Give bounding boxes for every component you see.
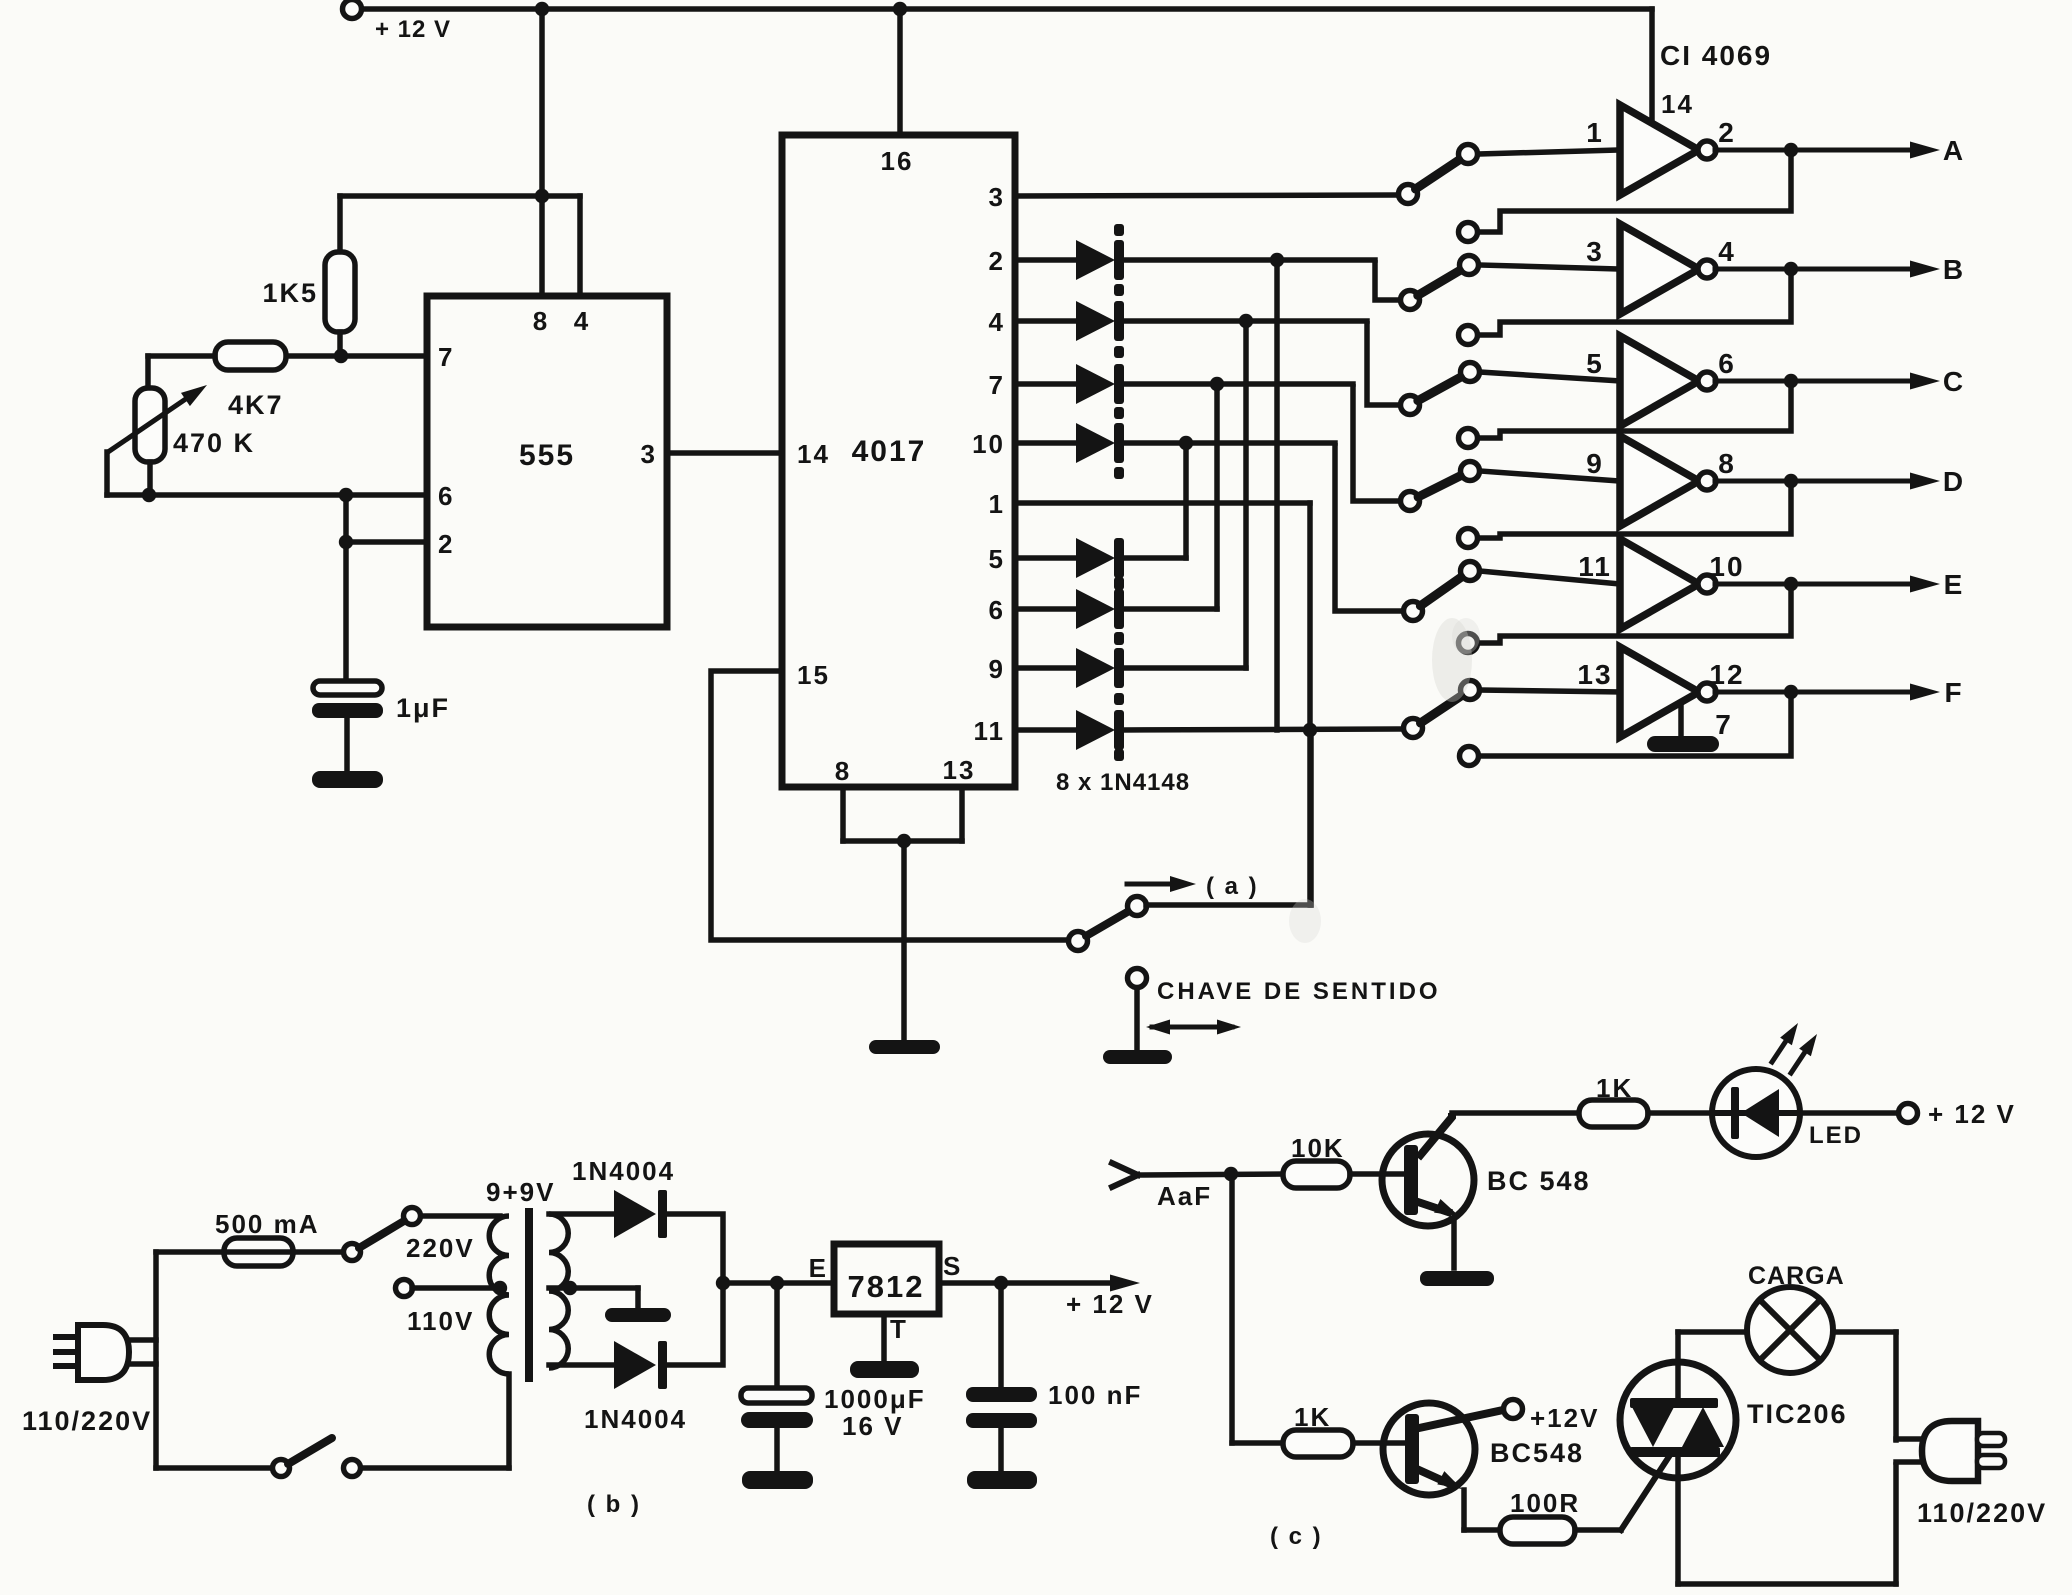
svg-text:8: 8 xyxy=(1718,448,1736,479)
svg-text:100R: 100R xyxy=(1510,1488,1580,1518)
svg-text:1K: 1K xyxy=(1294,1402,1331,1432)
svg-text:2: 2 xyxy=(989,246,1005,276)
svg-text:15: 15 xyxy=(797,660,830,690)
svg-text:110/220V: 110/220V xyxy=(1917,1498,2047,1528)
svg-text:9: 9 xyxy=(989,654,1005,684)
svg-text:11: 11 xyxy=(974,716,1006,746)
svg-text:7812: 7812 xyxy=(848,1269,925,1304)
svg-text:8 x 1N4148: 8 x 1N4148 xyxy=(1056,769,1190,796)
svg-text:13: 13 xyxy=(1577,659,1612,690)
svg-text:1000μF: 1000μF xyxy=(824,1384,926,1414)
svg-text:E: E xyxy=(809,1253,828,1283)
svg-text:CHAVE DE SENTIDO: CHAVE DE SENTIDO xyxy=(1157,978,1441,1005)
svg-text:110/220V: 110/220V xyxy=(22,1406,152,1436)
svg-text:1: 1 xyxy=(989,489,1005,519)
svg-text:5: 5 xyxy=(1586,348,1604,379)
svg-text:4: 4 xyxy=(1718,236,1736,267)
svg-text:( b ): ( b ) xyxy=(587,1491,641,1518)
svg-text:110V: 110V xyxy=(407,1306,474,1336)
svg-text:12: 12 xyxy=(1709,659,1744,690)
svg-text:3: 3 xyxy=(641,439,657,469)
svg-text:14: 14 xyxy=(797,439,830,469)
svg-text:10: 10 xyxy=(972,429,1005,459)
svg-text:1N4004: 1N4004 xyxy=(572,1156,675,1186)
svg-text:8: 8 xyxy=(835,756,851,786)
svg-text:1K5: 1K5 xyxy=(262,278,318,308)
svg-text:S: S xyxy=(943,1251,962,1281)
svg-text:7: 7 xyxy=(989,370,1005,400)
svg-text:T: T xyxy=(890,1314,908,1344)
svg-text:1: 1 xyxy=(1586,117,1604,148)
svg-text:CARGA: CARGA xyxy=(1748,1262,1845,1290)
svg-text:7: 7 xyxy=(438,342,454,372)
svg-text:+ 12 V: + 12 V xyxy=(375,16,451,43)
svg-text:555: 555 xyxy=(519,439,575,472)
svg-text:+ 12 V: + 12 V xyxy=(1066,1289,1154,1319)
svg-text:10K: 10K xyxy=(1291,1133,1345,1163)
svg-text:13: 13 xyxy=(943,755,976,785)
svg-text:9: 9 xyxy=(1586,448,1604,479)
svg-text:500 mA: 500 mA xyxy=(215,1209,320,1239)
svg-text:7: 7 xyxy=(1715,709,1733,740)
svg-text:+12V: +12V xyxy=(1530,1403,1599,1433)
svg-text:16: 16 xyxy=(881,146,914,176)
svg-text:+ 12 V: + 12 V xyxy=(1928,1099,2016,1129)
svg-text:A: A xyxy=(1943,135,1965,166)
svg-text:8: 8 xyxy=(533,306,549,336)
svg-text:CI 4069: CI 4069 xyxy=(1660,40,1772,71)
svg-text:B: B xyxy=(1943,254,1965,285)
svg-text:D: D xyxy=(1943,466,1965,497)
svg-text:1N4004: 1N4004 xyxy=(584,1404,687,1434)
svg-text:LED: LED xyxy=(1809,1122,1863,1149)
svg-text:4K7: 4K7 xyxy=(228,390,284,420)
svg-text:E: E xyxy=(1944,569,1965,600)
svg-text:BC 548: BC 548 xyxy=(1487,1166,1591,1196)
svg-text:C: C xyxy=(1943,366,1965,397)
svg-text:3: 3 xyxy=(989,182,1005,212)
svg-text:4017: 4017 xyxy=(852,435,927,468)
svg-text:16 V: 16 V xyxy=(842,1411,904,1441)
svg-text:2: 2 xyxy=(438,529,454,559)
svg-text:AaF: AaF xyxy=(1157,1181,1212,1211)
svg-text:2: 2 xyxy=(1718,117,1736,148)
svg-text:4: 4 xyxy=(574,306,590,336)
svg-text:3: 3 xyxy=(1586,236,1604,267)
svg-text:6: 6 xyxy=(1718,348,1736,379)
svg-text:1K: 1K xyxy=(1596,1073,1633,1103)
svg-text:6: 6 xyxy=(438,481,454,511)
svg-text:470 K: 470 K xyxy=(173,428,255,458)
svg-text:TIC206: TIC206 xyxy=(1747,1399,1848,1429)
svg-text:( a ): ( a ) xyxy=(1206,873,1259,900)
svg-text:1μF: 1μF xyxy=(396,693,450,723)
svg-text:4: 4 xyxy=(989,307,1005,337)
svg-text:BC548: BC548 xyxy=(1490,1438,1584,1468)
svg-text:6: 6 xyxy=(989,595,1005,625)
svg-text:9+9V: 9+9V xyxy=(486,1177,555,1207)
svg-text:( c ): ( c ) xyxy=(1270,1523,1323,1550)
svg-text:14: 14 xyxy=(1661,89,1694,119)
svg-text:11: 11 xyxy=(1578,551,1612,582)
svg-text:F: F xyxy=(1944,677,1963,708)
svg-text:100 nF: 100 nF xyxy=(1048,1380,1142,1410)
svg-text:220V: 220V xyxy=(406,1233,475,1263)
svg-text:5: 5 xyxy=(989,544,1005,574)
svg-text:10: 10 xyxy=(1709,551,1744,582)
